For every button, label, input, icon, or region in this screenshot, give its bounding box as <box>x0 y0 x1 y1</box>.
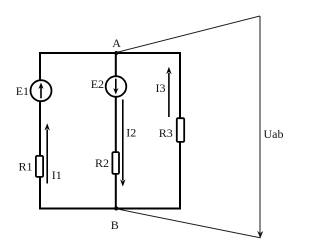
resistor R1 <box>36 156 43 177</box>
wire left branch <box>39 52 41 210</box>
current arrow I2 <box>120 100 125 187</box>
node B <box>114 207 118 211</box>
wire middle branch <box>115 52 117 210</box>
Uab line from node B to arrow tip <box>116 209 260 238</box>
wire top (node A rail) <box>40 52 180 54</box>
svg-text:I3: I3 <box>156 81 166 95</box>
svg-text:I2: I2 <box>126 126 136 140</box>
svg-text:Uab: Uab <box>264 127 284 141</box>
current arrow I1 <box>45 123 50 183</box>
svg-text:I1: I1 <box>52 168 62 182</box>
wire bottom (node B rail) <box>40 208 180 210</box>
source E2 <box>106 76 127 97</box>
source E1 <box>31 80 52 101</box>
resistor R3 <box>177 118 184 142</box>
resistor R2 <box>112 152 119 174</box>
svg-text:B: B <box>111 218 119 232</box>
Uab arrow right vertical line <box>259 16 261 233</box>
svg-text:R3: R3 <box>159 126 173 140</box>
svg-text:E2: E2 <box>91 77 104 91</box>
svg-text:R1: R1 <box>19 160 33 174</box>
Uab arrow line from A to top-right corner <box>116 16 260 53</box>
svg-text:R2: R2 <box>95 156 109 170</box>
svg-text:A: A <box>112 36 121 50</box>
wire right branch <box>179 52 181 210</box>
node A <box>114 51 118 55</box>
Uab arrowhead <box>257 231 263 239</box>
current arrow I3 <box>166 67 171 117</box>
svg-text:E1: E1 <box>16 84 29 98</box>
